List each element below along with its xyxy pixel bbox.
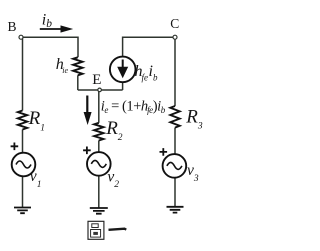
svg-text:B: B <box>8 19 17 34</box>
resistor h_ie <box>73 57 82 75</box>
resistor R3 <box>170 106 179 128</box>
svg-text:R2: R2 <box>105 118 123 143</box>
caption glyph 圖 <box>88 221 104 239</box>
resistor R1 <box>18 111 27 130</box>
svg-text:ie = (1+hfe)ib: ie = (1+hfe)ib <box>101 98 166 115</box>
source v1 sine <box>16 161 31 168</box>
wire current source bottom to E rail <box>122 82 124 90</box>
svg-text:C: C <box>170 16 179 31</box>
wire v1 to ground <box>22 176 24 207</box>
wire R3 to v3 <box>174 128 176 154</box>
caption glyph 一 <box>109 229 127 230</box>
wire C down to R3 <box>174 37 176 106</box>
arrow i_b <box>40 28 63 30</box>
plus v2 <box>83 147 91 155</box>
plus v3 <box>160 148 168 156</box>
wire v3 to ground <box>174 178 176 207</box>
current source U1 arrow <box>122 60 124 69</box>
source v2 circle <box>87 152 111 176</box>
svg-text:v2: v2 <box>107 168 119 190</box>
wire v2 to ground <box>98 176 100 208</box>
ground G1 <box>14 208 31 214</box>
svg-text:v1: v1 <box>30 168 42 190</box>
node E <box>98 88 102 92</box>
svg-text:ib: ib <box>42 11 52 30</box>
wire R1 to v1 <box>22 130 24 153</box>
plus v1 <box>11 143 19 151</box>
wire B to h_ie top <box>21 37 78 57</box>
svg-text:R1: R1 <box>28 108 45 133</box>
node C <box>173 35 177 39</box>
svg-text:R3: R3 <box>185 107 203 132</box>
resistor R2 <box>94 123 103 141</box>
ground G3 <box>167 207 184 213</box>
wire E down to R2 <box>98 90 100 123</box>
arrow i_e <box>86 96 88 114</box>
ground G2 <box>90 208 108 214</box>
wire B down to R1 <box>22 37 24 110</box>
svg-text:hfeib: hfeib <box>135 63 158 83</box>
source v3 sine <box>167 162 182 169</box>
source v1 circle <box>12 153 36 177</box>
source v2 sine <box>91 160 106 167</box>
svg-text:E: E <box>92 72 101 88</box>
svg-text:v3: v3 <box>187 162 199 184</box>
wire R2 to v2 <box>98 141 100 153</box>
node B <box>19 35 23 39</box>
source v3 circle <box>163 154 187 178</box>
wire node E horizontal <box>78 89 123 91</box>
svg-text:hie: hie <box>56 56 69 75</box>
wire top-right to node C <box>123 37 175 57</box>
wire h_ie bottom to E rail <box>77 75 79 90</box>
current source U1 circle <box>110 57 136 83</box>
